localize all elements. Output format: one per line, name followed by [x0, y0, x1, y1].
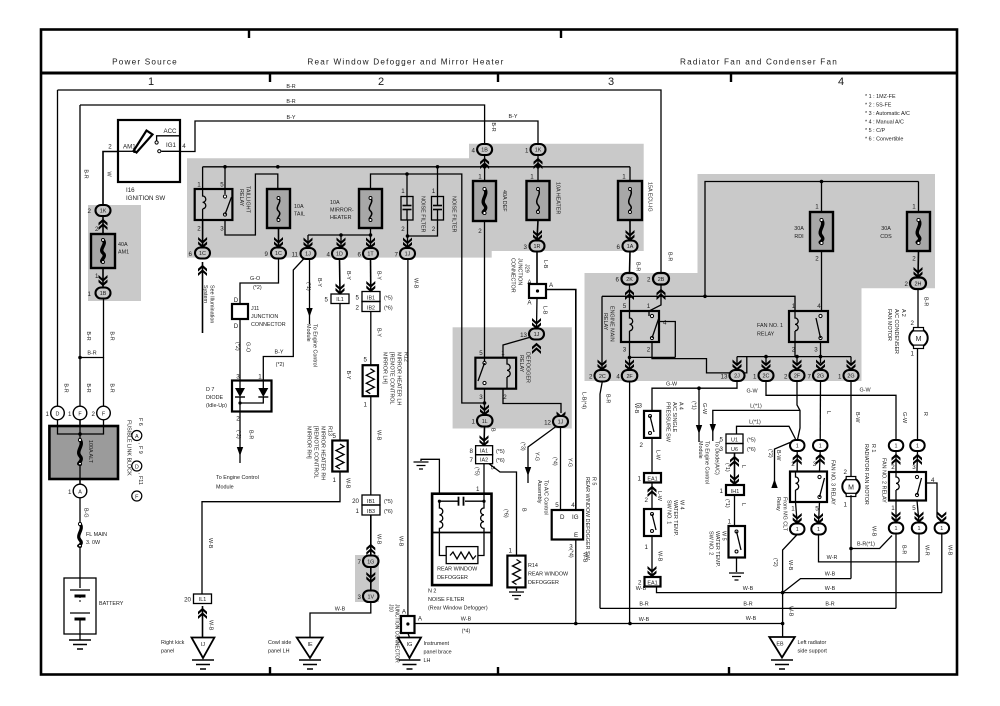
connector 2C 2: [595, 370, 611, 382]
wire heater fuse to 1R: [537, 220, 538, 241]
svg-text:(Rear Window Defogger): (Rear Window Defogger): [428, 606, 488, 612]
svg-text:4: 4: [838, 76, 844, 88]
connector 1C 6: [195, 248, 210, 259]
svg-text:2: 2: [356, 305, 360, 312]
svg-text:See Illumination: See Illumination: [209, 285, 215, 323]
fuse 10A MIRROR-HEATER: [359, 189, 382, 228]
junction connector IA1/IA2: [476, 446, 493, 455]
svg-text:2: 2: [815, 256, 819, 263]
wire B-G: [79, 498, 81, 524]
svg-text:2: 2: [589, 374, 593, 381]
noise filter 2: [432, 197, 444, 221]
connector 2G 7: [813, 370, 828, 381]
engine main relay coil: [630, 311, 633, 342]
svg-text:panel brace: panel brace: [424, 650, 452, 656]
diode D7: [232, 381, 272, 412]
svg-text:1K: 1K: [535, 148, 542, 154]
svg-text:2: 2: [378, 76, 384, 88]
svg-text:IG1: IG1: [166, 142, 177, 149]
svg-text:3: 3: [720, 446, 724, 453]
svg-text:(*5): (*5): [496, 449, 505, 455]
svg-text:Cowl side: Cowl side: [268, 640, 291, 646]
svg-text:R13: R13: [327, 426, 333, 436]
svg-text:ACC: ACC: [163, 128, 177, 135]
connector 1K left: [96, 205, 111, 216]
svg-text:1: 1: [891, 505, 895, 512]
taillight relay box: [195, 189, 233, 220]
svg-text:1B: 1B: [481, 148, 488, 154]
svg-text:A: A: [78, 490, 82, 496]
svg-text:N 2: N 2: [428, 589, 436, 595]
svg-text:2: 2: [92, 411, 96, 418]
connector 1G 7: [363, 556, 379, 568]
svg-text:EB: EB: [776, 642, 784, 648]
svg-text:A 4: A 4: [678, 402, 684, 410]
svg-text:1: 1: [476, 486, 480, 493]
svg-text:1: 1: [530, 174, 534, 181]
svg-text:1: 1: [819, 444, 822, 450]
svg-text:PRESSURE SW: PRESSURE SW: [665, 402, 671, 443]
svg-text:M: M: [848, 485, 854, 492]
wire R12 W-B down to IB1/IB3: [370, 396, 372, 495]
wire 2K to relay pin5: [629, 285, 631, 312]
fuse 10A TAIL: [267, 189, 290, 228]
svg-text:Power Source: Power Source: [112, 58, 178, 67]
taillight relay coil: [203, 189, 206, 220]
svg-text:J10: J10: [388, 604, 394, 612]
svg-text:To Engine Control: To Engine Control: [312, 324, 318, 367]
svg-text:2: 2: [95, 226, 99, 233]
svg-text:1: 1: [401, 188, 405, 195]
svg-text:DEFOGGER: DEFOGGER: [528, 580, 559, 586]
svg-text:1: 1: [364, 402, 368, 409]
svg-text:CONNECTOR: CONNECTOR: [510, 258, 516, 293]
svg-text:3: 3: [814, 347, 818, 354]
svg-text:G-W: G-W: [666, 382, 678, 388]
svg-text:G-W: G-W: [701, 403, 707, 415]
svg-text:W-B: W-B: [636, 586, 647, 592]
svg-text:B-R: B-R: [85, 331, 91, 340]
svg-text:FAN MOTOR: FAN MOTOR: [886, 309, 892, 341]
coil bus below fan relay1: [737, 356, 851, 358]
N2 left coil: [439, 501, 442, 532]
svg-text:R 5: R 5: [591, 477, 597, 485]
svg-text:TAIL: TAIL: [294, 212, 305, 218]
noise filter N2 box: [432, 494, 491, 585]
svg-text:W-B: W-B: [743, 586, 754, 592]
connector 1K: [531, 144, 546, 155]
wire left B-R vertical x=80: [79, 105, 81, 406]
wire IA2 branch to R14: [489, 464, 517, 556]
svg-text:1: 1: [753, 374, 757, 381]
svg-text:MIRROR HEATER LH: MIRROR HEATER LH: [396, 352, 402, 405]
chevron into 1B left: [99, 275, 108, 286]
junction dots on coil bus: [764, 355, 768, 359]
svg-text:10A: 10A: [294, 204, 304, 210]
wire relay2 pin4 loop to oval: [926, 483, 942, 522]
header tick mid 2: [497, 74, 499, 82]
svg-text:To A/C Control: To A/C Control: [543, 480, 549, 515]
header tick top 1: [248, 29, 250, 38]
svg-text:(*6): (*6): [384, 509, 393, 515]
svg-text:Module: Module: [216, 485, 234, 491]
bottom tick 3: [728, 667, 730, 675]
wire J29 A to defogger switch IG (L-B *4): [546, 290, 576, 511]
svg-text:(*5): (*5): [747, 438, 756, 444]
svg-text:From MG CLT: From MG CLT: [782, 497, 788, 532]
svg-text:Y-G: Y-G: [534, 452, 540, 461]
svg-text:W-B: W-B: [788, 606, 794, 617]
svg-text:FAN NO. 2 RELAY: FAN NO. 2 RELAY: [881, 458, 887, 503]
svg-text:5: 5: [555, 502, 559, 509]
svg-text:SW NO. 1: SW NO. 1: [666, 500, 672, 524]
svg-text:(*1): (*1): [691, 401, 697, 410]
junction dots on ground buses: [781, 591, 785, 595]
wire IB3 to 1G: [366, 544, 375, 555]
svg-text:W-B: W-B: [335, 607, 346, 613]
wire G-O from 1C9 to J11: [240, 259, 279, 305]
svg-text:(*3): (*3): [520, 442, 526, 451]
svg-text:B-R: B-R: [923, 297, 929, 306]
svg-text:B-R: B-R: [248, 430, 254, 439]
oval 1 above relay3 pin3: [813, 440, 828, 451]
svg-text:12: 12: [544, 420, 551, 427]
wire mirror heater feed from defogger relay: [371, 174, 485, 403]
engine main relay box: [621, 311, 659, 342]
chevron below 2K and 2B: [625, 289, 634, 300]
B-R bus y=608: [600, 607, 896, 609]
wire oval to EB via W-B (*2): [783, 535, 798, 638]
svg-text:RELAY: RELAY: [757, 332, 775, 338]
svg-text:* 5 : C/P: * 5 : C/P: [865, 128, 885, 134]
svg-text:(*1): (*1): [724, 499, 730, 508]
svg-text:2: 2: [891, 464, 895, 471]
svg-text:3. 0W: 3. 0W: [86, 540, 101, 546]
svg-text:2K: 2K: [626, 277, 633, 283]
svg-text:RADIATOR FAN MOTOR: RADIATOR FAN MOTOR: [863, 444, 869, 505]
svg-text:1C: 1C: [199, 251, 206, 257]
svg-text:1J: 1J: [534, 332, 540, 338]
wire B-R top bus y=90: [58, 90, 662, 273]
svg-text:FAN NO. 3 RELAY: FAN NO. 3 RELAY: [830, 460, 836, 505]
svg-text:IB1: IB1: [367, 499, 375, 505]
ignition switch contacts: [118, 150, 134, 152]
svg-text:IH1: IH1: [731, 489, 739, 495]
svg-text:1J: 1J: [558, 420, 564, 426]
svg-text:(*4): (*4): [568, 549, 574, 558]
svg-text:W-B: W-B: [871, 526, 877, 537]
svg-text:D 7: D 7: [206, 387, 214, 393]
svg-text:1: 1: [895, 444, 898, 450]
junction connector IL1 5: [331, 294, 349, 304]
fuse 100A ALT: [79, 440, 82, 464]
svg-text:FAN NO. 1: FAN NO. 1: [757, 323, 783, 329]
engine main relay switch: [650, 314, 653, 317]
svg-text:13: 13: [721, 374, 728, 381]
svg-text:4: 4: [182, 143, 186, 150]
svg-text:R14: R14: [528, 563, 538, 569]
svg-text:2: 2: [647, 277, 651, 284]
svg-text:side support: side support: [798, 649, 828, 655]
svg-text:BATTERY: BATTERY: [99, 601, 124, 607]
svg-text:System: System: [202, 285, 208, 303]
svg-text:JUNCTION CONNECTOR: JUNCTION CONNECTOR: [394, 604, 400, 663]
svg-text:2: 2: [432, 226, 436, 233]
wire oval1f to B-R bus: [895, 534, 897, 609]
svg-text:L-B: L-B: [542, 306, 548, 315]
diode D7 right element: [262, 381, 264, 389]
svg-text:1: 1: [895, 526, 898, 532]
svg-text:Assembly: Assembly: [536, 480, 542, 504]
svg-text:J29: J29: [524, 264, 530, 273]
svg-text:1: 1: [68, 411, 72, 418]
svg-text:(*2): (*2): [253, 285, 262, 291]
svg-text:L-B(*4): L-B(*4): [581, 392, 587, 409]
svg-text:5: 5: [912, 505, 916, 512]
svg-text:1: 1: [911, 351, 915, 358]
svg-text:10A HEATER: 10A HEATER: [555, 182, 561, 214]
svg-text:7: 7: [470, 457, 474, 464]
svg-text:A 2: A 2: [900, 309, 906, 317]
chevron below 1B: [480, 158, 489, 169]
svg-text:(*2): (*2): [276, 362, 285, 368]
wire B-Y from 1J11 to D7 pin1: [263, 259, 304, 381]
svg-text:ENGINE MAIN: ENGINE MAIN: [609, 306, 615, 342]
defogger relay coil: [507, 358, 510, 389]
svg-text:B-Y: B-Y: [316, 278, 322, 287]
svg-text:B-Y: B-Y: [509, 114, 518, 120]
svg-text:W 5: W 5: [721, 531, 727, 541]
svg-text:* 2 : 5S-FE: * 2 : 5S-FE: [865, 103, 892, 109]
diode D7 left element: [239, 381, 241, 389]
svg-text:CONNECTOR: CONNECTOR: [251, 322, 286, 328]
svg-text:2: 2: [640, 442, 644, 449]
svg-text:JUNCTION: JUNCTION: [517, 258, 523, 285]
circle terminal D: [51, 406, 65, 420]
svg-text:(*6): (*6): [747, 447, 756, 453]
svg-text:(*5): (*5): [474, 467, 480, 476]
svg-text:E: E: [574, 532, 578, 539]
branch G-W to engine control module: [698, 388, 700, 442]
svg-text:W-B: W-B: [398, 536, 404, 547]
relay3 outputs to ovals: [796, 502, 798, 524]
connector 2F 4: [622, 370, 638, 382]
svg-text:G-W: G-W: [859, 387, 871, 393]
svg-text:, F 9: , F 9: [137, 443, 143, 454]
svg-text:IA1: IA1: [480, 449, 488, 455]
svg-text:IGNITION SW: IGNITION SW: [126, 195, 165, 202]
svg-text:2C: 2C: [763, 374, 770, 380]
svg-text:G-O: G-O: [250, 276, 260, 282]
svg-text:EA1: EA1: [647, 477, 657, 483]
svg-text:5: 5: [623, 303, 627, 310]
connector 2H: [910, 278, 926, 290]
svg-text:R 1: R 1: [870, 444, 876, 452]
wire 2J to A4 pressure switch: [652, 382, 737, 411]
wire R1 motor to W-B and B-R(*1): [850, 495, 852, 578]
wire 1J7 long W-B down to J10: [407, 259, 409, 616]
fusible link block: [57, 420, 59, 427]
gray shaded region: section 2 fuse band: [187, 144, 644, 258]
circle terminal A: [73, 484, 87, 498]
svg-text:B-R: B-R: [635, 262, 641, 271]
noise filter ground path to 1J7: [408, 220, 438, 236]
junction connector U1/U6: [726, 434, 743, 444]
connector 1J 7: [400, 248, 415, 259]
svg-text:RDI: RDI: [794, 234, 803, 240]
svg-text:DEFOGGER: DEFOGGER: [437, 575, 468, 581]
svg-text:1: 1: [148, 76, 154, 88]
svg-text:REAR WINDOW DEFOGGER SW: REAR WINDOW DEFOGGER SW: [584, 477, 590, 561]
wire ECU-IG fuse to 1A: [629, 220, 631, 241]
svg-text:WATER TEMP.: WATER TEMP.: [672, 500, 678, 536]
junction connector IB1/IB2: [362, 292, 380, 302]
svg-text:W-B: W-B: [746, 616, 757, 622]
svg-text:1: 1: [46, 411, 50, 418]
see illumination system stub: [198, 265, 207, 276]
svg-text:W-R: W-R: [827, 555, 838, 561]
svg-text:3: 3: [220, 226, 224, 233]
svg-text:B-R: B-R: [825, 602, 834, 608]
svg-text:15A ECU-IG: 15A ECU-IG: [647, 182, 653, 212]
svg-text:40A: 40A: [118, 242, 128, 248]
svg-text:B-R: B-R: [63, 383, 69, 392]
svg-text:1V: 1V: [368, 594, 375, 600]
header separator thick line: [41, 72, 957, 75]
svg-text:1: 1: [838, 374, 842, 381]
svg-text:IJ: IJ: [201, 642, 205, 648]
svg-text:30A: 30A: [881, 226, 891, 232]
svg-text:IG: IG: [407, 642, 413, 648]
wire B-Y bus y=121: [180, 121, 538, 152]
wire 2F W-B down to bus: [629, 382, 631, 624]
svg-text:1: 1: [525, 148, 529, 155]
wire oval1g to W-R line: [918, 534, 920, 562]
W-B bus from J10 (*4): [415, 623, 783, 625]
svg-text:6: 6: [617, 244, 621, 251]
svg-text:Module: Module: [697, 441, 703, 459]
svg-text:, F11: , F11: [137, 473, 143, 485]
svg-text:(*6): (*6): [503, 509, 509, 518]
svg-text:JUNCTION: JUNCTION: [251, 314, 278, 320]
svg-text:1L: 1L: [482, 419, 488, 425]
svg-text:B-R: B-R: [109, 383, 115, 392]
svg-text:5: 5: [220, 182, 224, 189]
svg-text:B-R: B-R: [83, 169, 89, 178]
svg-text:[REMOTE CONTROL: [REMOTE CONTROL: [389, 352, 395, 404]
connector 1J 12: [553, 416, 568, 427]
svg-text:SW NO. 2: SW NO. 2: [708, 531, 714, 555]
svg-text:B-Y: B-Y: [275, 350, 284, 356]
svg-text:NOISE FILTER: NOISE FILTER: [451, 196, 457, 233]
wire relay pin4 loop: [659, 322, 675, 358]
svg-text:2: 2: [647, 347, 651, 354]
wire B-R second bus y=105: [80, 105, 485, 144]
svg-text:(*6): (*6): [496, 458, 505, 464]
svg-text:L-W: L-W: [655, 450, 661, 461]
svg-text:Y-G: Y-G: [567, 458, 573, 467]
ignition switch I16 box: [118, 120, 180, 182]
wire J10 to IG ground: [408, 633, 410, 638]
wire 2B to relay pin1: [649, 285, 661, 317]
wire 1V to IE ground: [310, 602, 371, 638]
svg-text:2: 2: [108, 144, 112, 151]
svg-text:Relay: Relay: [775, 497, 781, 511]
svg-text:1: 1: [796, 444, 799, 450]
svg-text:B-Y: B-Y: [345, 271, 351, 280]
svg-text:1: 1: [728, 519, 732, 526]
svg-text:(*5): (*5): [384, 296, 393, 302]
svg-text:MIRROR HEATER RH: MIRROR HEATER RH: [320, 426, 326, 480]
chevron between 1G and 1V: [366, 572, 375, 583]
svg-text:9: 9: [265, 251, 269, 258]
circle terminal F2: [97, 406, 111, 420]
svg-text:(*5): (*5): [384, 499, 393, 505]
svg-text:L: L: [740, 465, 746, 468]
svg-text:AM1: AM1: [118, 250, 129, 256]
svg-text:RELAY: RELAY: [238, 189, 244, 207]
svg-text:1: 1: [791, 506, 795, 513]
svg-text:MIRROR RH]: MIRROR RH]: [306, 426, 312, 459]
svg-text:L: L: [825, 411, 831, 414]
svg-text:A/C CONDENSER: A/C CONDENSER: [893, 309, 899, 354]
svg-text:1K: 1K: [100, 209, 107, 215]
wire R13 W-B to IL1 20: [202, 472, 340, 595]
svg-text:(*4): (*4): [462, 629, 471, 635]
svg-text:3: 3: [639, 403, 643, 410]
connector 1V 3: [363, 591, 379, 603]
wire 1L to IA1: [483, 427, 486, 446]
svg-text:B-R: B-R: [605, 394, 611, 403]
svg-text:(*2): (*2): [772, 558, 778, 567]
svg-text:REAR WINDOW: REAR WINDOW: [437, 567, 478, 573]
svg-text:1: 1: [916, 444, 919, 450]
svg-text:B: B: [490, 428, 496, 432]
svg-text:1A: 1A: [627, 244, 634, 250]
svg-text:W-B: W-B: [582, 552, 588, 563]
svg-text:B-Y: B-Y: [376, 328, 382, 337]
svg-text:IL1: IL1: [199, 597, 207, 603]
svg-text:3: 3: [623, 347, 627, 354]
svg-text:panel: panel: [161, 649, 174, 655]
oval 1 above relay3 pin2: [790, 440, 805, 451]
svg-text:D: D: [560, 514, 565, 521]
relay coil bus y=296: [602, 296, 795, 311]
wire 1B down x=104: [80, 299, 104, 358]
svg-text:1: 1: [817, 527, 820, 533]
connector 2C 1: [759, 370, 774, 381]
svg-text:B-R: B-R: [490, 122, 496, 131]
svg-text:U6: U6: [731, 447, 738, 453]
svg-text:TAILLIGHT: TAILLIGHT: [245, 186, 251, 214]
svg-text:D: D: [135, 464, 139, 470]
wire EA1 2 to W-B bus: [657, 587, 943, 593]
svg-text:4: 4: [663, 320, 667, 327]
svg-text:2: 2: [478, 228, 482, 235]
oval above relay2 pin3: [910, 440, 925, 451]
svg-text:B-W: B-W: [854, 412, 860, 423]
svg-text:CDS: CDS: [880, 234, 892, 240]
fuse FL MAIN 3.0W: [79, 524, 82, 546]
wire 1A to 2K: [629, 252, 632, 274]
wire TAIL fuse to 1C 9: [278, 228, 280, 248]
bottom tick 2: [497, 667, 499, 675]
wire IB2 down to R12: [370, 312, 372, 366]
svg-text:10A: 10A: [330, 200, 340, 206]
wire 1T5 to IB1/IB2: [370, 259, 372, 292]
svg-text:IL1: IL1: [336, 297, 344, 303]
svg-text:D: D: [56, 412, 60, 418]
